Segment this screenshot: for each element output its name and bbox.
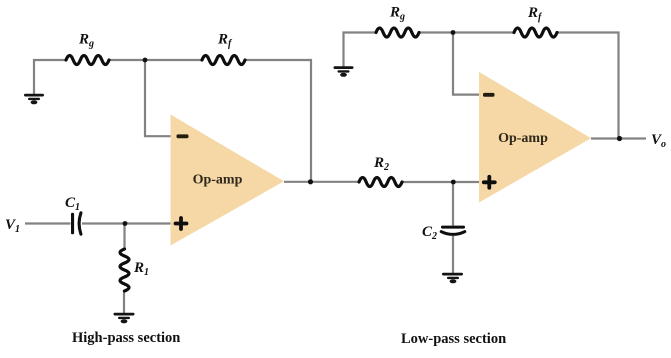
svg-text:Low-pass section: Low-pass section (401, 331, 506, 347)
svg-text:High-pass section: High-pass section (72, 330, 180, 346)
svg-text:Op-amp: Op-amp (193, 173, 243, 188)
svg-text:Op-amp: Op-amp (498, 131, 548, 146)
